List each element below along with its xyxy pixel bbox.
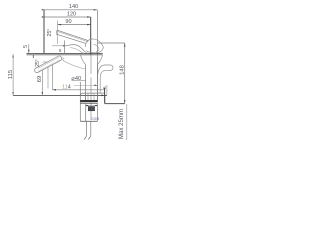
svg-text:G3/8: G3/8 — [91, 117, 99, 121]
svg-text:114: 114 — [62, 85, 71, 91]
svg-text:90: 90 — [65, 19, 71, 25]
svg-text:25°: 25° — [35, 59, 41, 67]
svg-text:140: 140 — [69, 4, 78, 10]
svg-text:⌀40: ⌀40 — [71, 76, 81, 82]
svg-text:5: 5 — [102, 86, 108, 89]
svg-text:5: 5 — [23, 45, 29, 48]
svg-text:120: 120 — [67, 12, 76, 18]
svg-text:148: 148 — [119, 65, 125, 75]
svg-text:115: 115 — [8, 70, 14, 79]
svg-text:5: 5 — [59, 48, 62, 53]
svg-text:Max 25mm: Max 25mm — [118, 109, 125, 139]
svg-text:25°: 25° — [47, 29, 53, 37]
svg-text:69: 69 — [37, 76, 43, 82]
